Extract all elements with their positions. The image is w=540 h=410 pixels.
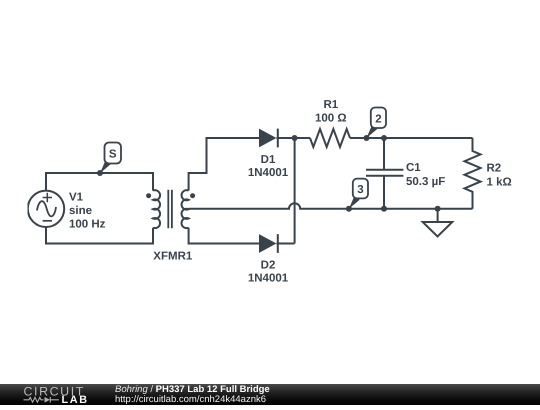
- node junction dot D1: [292, 135, 298, 141]
- node C1 top junction dot: [381, 135, 387, 141]
- ground junction dot: [435, 206, 441, 212]
- svg-text:R2: R2: [487, 163, 502, 175]
- diode D2: [259, 234, 278, 253]
- resistor R2: [465, 138, 481, 209]
- svg-text:sine: sine: [69, 205, 92, 217]
- transformer XFMR1: [146, 190, 195, 229]
- primary winding: [153, 190, 160, 228]
- svg-text:LAB: LAB: [62, 394, 89, 405]
- node C1 bottom junction dot: [381, 206, 387, 212]
- node S junction dot: [97, 170, 103, 176]
- CircuitLab logo circuit icon: [24, 397, 59, 403]
- flag node 2: [367, 108, 387, 139]
- svg-text:2: 2: [375, 113, 381, 125]
- voltage source V1: [28, 191, 64, 227]
- wire D1 cathode to R1: [276, 137, 310, 139]
- secondary winding: [182, 190, 189, 228]
- wire D2 cathode to bus: [276, 243, 294, 245]
- svg-text:1N4001: 1N4001: [248, 167, 289, 179]
- svg-text:http://circuitlab.com/cnh24k44: http://circuitlab.com/cnh24k44aznk6: [115, 394, 266, 405]
- svg-text:R1: R1: [323, 99, 338, 111]
- svg-text:S: S: [109, 149, 117, 161]
- wire secondary bottom lead to D2: [189, 228, 259, 244]
- svg-text:D2: D2: [261, 259, 276, 271]
- svg-text:1N4001: 1N4001: [248, 273, 289, 285]
- svg-text:100 Hz: 100 Hz: [69, 219, 106, 231]
- diode D1: [259, 129, 278, 148]
- flag node 3: [349, 179, 368, 209]
- svg-text:XFMR1: XFMR1: [153, 250, 193, 262]
- resistor R1: [310, 129, 350, 147]
- wire bottom rail of primary loop: [46, 227, 153, 244]
- svg-text:100 Ω: 100 Ω: [315, 113, 347, 125]
- flag node S: [100, 143, 121, 174]
- wire cathode bus vertical: [294, 138, 296, 244]
- wire center tap rail with hop: [189, 203, 473, 209]
- node 3 junction dot: [346, 206, 352, 212]
- wire top rail of primary loop: [46, 173, 153, 191]
- svg-text:1 kΩ: 1 kΩ: [487, 177, 512, 189]
- secondary polarity dot: [190, 193, 195, 198]
- node 2 junction dot: [364, 135, 370, 141]
- primary polarity dot: [146, 193, 151, 198]
- wire R1 to R2 top rail: [350, 137, 473, 139]
- wire secondary top lead to D1: [189, 138, 259, 191]
- footer bar: [0, 384, 540, 405]
- core: [168, 190, 172, 229]
- capacitor C1: [366, 138, 403, 209]
- svg-text:D1: D1: [261, 154, 276, 166]
- ground: [423, 209, 453, 237]
- svg-text:C1: C1: [406, 162, 421, 174]
- svg-text:50.3 µF: 50.3 µF: [406, 176, 445, 188]
- svg-text:V1: V1: [69, 191, 84, 203]
- svg-text:3: 3: [357, 184, 363, 196]
